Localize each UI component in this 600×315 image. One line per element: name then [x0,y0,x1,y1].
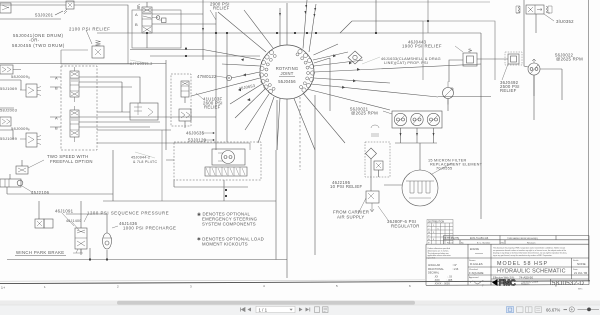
svg-text:LINE)(CAT) PROP. PSI: LINE)(CAT) PROP. PSI [384,61,428,65]
svg-text:ECN-74-A50-116: ECN-74-A50-116 [470,237,489,240]
nav next icon [299,308,303,312]
layout icon 3 [526,307,533,313]
valve left edge a [0,3,11,13]
svg-text:B-TH-95(275): B-TH-95(275) [445,237,460,240]
revision row entries [445,237,539,240]
svg-text:21 JUL '86: 21 JUL '86 [574,271,588,275]
solenoid valve 31U0352 [516,5,552,14]
junction [226,32,228,34]
tolerance block small print [428,247,451,260]
zoom slider line [578,308,600,310]
pilot valve 58J0009 a [0,65,21,74]
steering wires [166,160,248,201]
svg-text:: 1/16: : 1/16 [452,268,459,271]
orifice check [152,16,166,23]
svg-text:F-SQUARE: F-SQUARE [469,271,484,275]
svg-text:3lU0352: 3lU0352 [556,19,574,24]
svg-text:: ±1°: : ±1° [452,264,457,267]
svg-text:1900 PSI RELIEF: 1900 PSI RELIEF [402,44,442,49]
wire right bus [480,33,482,219]
pilot valve 55J1069 a [20,84,41,97]
svg-text:FMC: FMC [499,279,516,288]
leader 41U103F [196,93,203,99]
leader 53J0129 [203,139,213,141]
winch spool valve 2 [70,106,79,142]
svg-text:74-A50-90: 74-A50-90 [519,276,533,280]
reservoir tank [402,170,438,206]
small valve pair [35,219,53,228]
pilot valve 55J1069 b [20,133,41,147]
wire elbow to box [340,21,423,33]
page copy icon [315,307,320,313]
wire [371,159,379,191]
svg-text:1000 PSI PRECHARGE: 1000 PSI PRECHARGE [123,226,176,231]
svg-text:Approved: Approved [469,276,479,279]
distribution cells [428,225,439,245]
FMC logo arrow [492,279,498,286]
page copy icon 2 [323,307,329,313]
svg-text:RELIEF: RELIEF [204,105,221,110]
junction [89,259,91,261]
svg-text:6: 6 [409,284,411,288]
junction [306,32,308,34]
arrowhead [305,5,307,8]
label 46J2195 [330,180,363,189]
pilot wires left column [0,80,21,139]
svg-text:ing or any part thereof, excep: ing or any part thereof, except for manu… [493,254,553,257]
junction [315,32,317,34]
wire bus upper [97,32,455,34]
toolbar top edge [0,304,600,306]
triple pump box [392,111,442,128]
page field dropdown [290,309,293,311]
wire vertical A [202,0,204,60]
wire motor bus [438,69,562,120]
scrollbar track [0,301,600,306]
svg-text:2100 PSI RELIEF: 2100 PSI RELIEF [69,27,110,32]
leader dot [213,139,215,141]
svg-text:70J0555: 70J0555 [436,166,452,170]
gauge 47M0122 [216,75,232,80]
svg-text:3: 3 [190,284,192,288]
leader regulator [378,206,388,220]
wire [455,32,481,34]
spoke wires lower [277,98,315,171]
wire [524,0,528,67]
wire [97,142,210,144]
spoke wires left [191,50,274,144]
svg-text:7: 7 [482,284,484,288]
svg-text:4: 4 [263,284,265,288]
junction [215,32,217,34]
wire dashed below joint [299,97,301,170]
zoom reset circle [569,307,574,312]
center-left box [130,103,158,120]
wire [0,5,128,33]
svg-text:55J1069: 55J1069 [0,86,18,91]
leader dot [213,132,215,134]
svg-text:B: B [135,22,138,27]
box 45J09 [210,143,250,150]
sheet bottom border inner light line [0,280,425,281]
svg-text:HYDRAULIC SCHEMATIC: HYDRAULIC SCHEMATIC [497,268,566,274]
svg-text:1: 1 [44,285,46,289]
svg-text:5: 5 [336,284,338,288]
two speed box [16,166,28,174]
svg-text:58J2003: 58J2003 [0,108,18,113]
svg-text:J: J [428,228,429,230]
label 45J0944 optional [131,156,157,165]
engre dash [475,253,483,255]
wire [165,60,167,150]
steering pump circle [212,149,245,165]
motor circle [443,82,454,105]
nav prev icon [248,308,252,312]
pilot valve 58J2003 [0,117,11,126]
svg-text:46J1400: 46J1400 [66,219,82,223]
layout icon 2 [517,307,524,313]
leader 31U0352 [544,14,554,21]
rotating joint ports right [296,49,315,92]
steering valve bank [205,167,247,176]
svg-text:1 / 1: 1 / 1 [259,307,268,312]
arrowhead [304,11,306,14]
svg-text:Revision: Revision [527,242,536,244]
sheet bottom border [0,281,590,284]
svg-text:(75): (75) [500,242,504,244]
svg-text:FREEFALL OPTION: FREEFALL OPTION [50,159,93,164]
enclosure box hoist relief [61,33,130,64]
center dashed enclosure [171,74,191,126]
note optional steering [197,212,258,227]
svg-text:MOMENT KICKOUTS: MOMENT KICKOUTS [202,242,248,247]
svg-text:53J0129: 53J0129 [188,138,207,143]
toolbar background [0,305,600,315]
spoke wires right [303,44,481,143]
svg-text:55J1069: 55J1069 [0,136,18,141]
wire long bottom [103,200,276,202]
leader replacement element [432,163,452,174]
sequence valve 46J1400 [73,224,87,255]
accumulator [103,233,113,249]
junction [146,32,148,34]
svg-text:DISTRIBUTION: DISTRIBUTION [428,221,445,223]
svg-text:58J0532-D: 58J0532-D [552,280,584,287]
pump P3 [427,113,439,125]
arrowhead [342,86,345,89]
arrowhead [314,8,316,11]
wire center vertical long [314,95,316,255]
wire [427,0,429,33]
svg-text:55J0456: 55J0456 [278,79,296,84]
distribution table [427,220,453,245]
wire [90,150,287,278]
arrowhead [313,14,315,17]
winch valve wires [50,77,216,127]
svg-text:-OR-: -OR- [29,38,40,43]
zoom slider knob [587,308,591,312]
revision header row [447,241,536,244]
junction [276,32,278,34]
steering assembly dashed enclosure [174,142,261,180]
pump P2 [411,113,423,125]
svg-text:@2625 RPM: @2625 RPM [556,57,583,62]
svg-text:Division: Division [521,283,530,286]
svg-text:58J0009ₑ: 58J0009ₑ [11,126,30,131]
arrowhead [333,54,336,57]
wire port lines [152,14,216,24]
svg-text:.XXXX : .0005: .XXXX : .0005 [434,283,450,286]
zoom minus [564,309,568,311]
svg-text:1200 PSI SEQUENCE PRESSURE: 1200 PSI SEQUENCE PRESSURE [87,211,169,216]
junction [185,55,187,57]
wire [146,2,148,48]
wire [0,11,63,19]
pump suction wires [395,128,437,170]
arrowhead [433,133,435,136]
air regulator 36J80F [366,191,379,212]
enclosure box main valve [132,10,181,48]
arrowhead [238,88,241,91]
faint optional lines [130,57,380,158]
svg-text:MODEL 58 HSP: MODEL 58 HSP [497,261,548,267]
layout icon 4 [535,307,542,313]
svg-text:RELIEF: RELIEF [213,6,230,11]
rotating joint underline [279,76,295,78]
wire [150,56,330,111]
junction [185,48,187,50]
arrowhead [241,58,244,61]
logo division text [521,280,539,286]
brake cylinder [0,179,23,187]
svg-text:47M0122: 47M0122 [197,74,217,79]
arrowhead [243,73,246,76]
leader 46J1400 [72,222,79,230]
wire [477,58,508,60]
rotating joint ports left [259,50,276,93]
wire [375,0,377,33]
filter assembly [365,125,390,177]
svg-text:46J1091: 46J1091 [55,209,74,214]
layout icon selected [507,307,514,313]
svg-text:2: 2 [117,285,119,289]
junction [427,20,429,22]
svg-text:JOINT: JOINT [280,71,293,76]
title block frame [426,236,589,286]
wire [97,111,130,113]
leader 46J1091 [62,213,74,226]
junction [106,259,108,261]
svg-text:A: A [135,12,138,17]
svg-text:A: A [55,76,58,81]
winch valve enclosure [61,66,97,150]
nav last-page icon [306,308,310,312]
junction [375,32,377,34]
leader from carrier [358,198,366,214]
relief valve 36J0492 [502,52,522,80]
svg-text:NONE: NONE [577,262,586,266]
pump 56J0022 [528,59,540,75]
zone numbers bottom [44,283,557,288]
svg-text:58J0009ₐ: 58J0009ₐ [11,74,30,79]
relief valve 41U103F [181,81,189,103]
wire [276,100,278,150]
relief valve lower 46J0635 [179,109,191,128]
arrowhead [279,13,281,16]
winch park brake underline [15,255,66,257]
leader 56J0021 [383,111,392,114]
sheet right border [588,0,590,282]
arrowhead [202,28,204,31]
wire long left bus [0,63,166,65]
svg-text:53J0201: 53J0201 [35,13,54,18]
legal small print [493,247,567,257]
arrowhead [353,79,356,82]
wire vertical B [216,12,227,150]
relief valve 46J0443 [455,46,477,66]
svg-text:DECIMAL: DECIMAL [428,272,440,275]
wire [112,150,114,201]
wire [97,129,171,131]
main control valve spool (top center) [137,4,152,33]
wire [449,60,463,82]
sheet top border [0,1,490,3]
svg-text:specified.: specified. [428,258,436,260]
svg-text:ENG'RE: ENG'RE [470,248,479,251]
wire [535,14,537,33]
junction [225,189,227,191]
leader precharge [112,226,118,228]
spoke wires upper [218,0,316,52]
tolerance values [428,264,459,286]
svg-text:@2625 RPM: @2625 RPM [351,111,378,116]
scrollbar thumb [117,301,415,305]
wire drain bottom [7,259,287,261]
leader 45J2106 [22,186,32,192]
svg-text:& 7L8 PL4TC: & 7L8 PL4TC [133,160,157,164]
svg-text:A: A [55,116,58,121]
svg-text:RELIEF: RELIEF [500,88,517,93]
arrowhead [416,133,418,136]
valve 53J0201 [64,1,74,14]
wire [534,69,562,96]
arrowhead [349,61,352,64]
svg-text:10 PSI RELIEF: 10 PSI RELIEF [330,184,363,189]
junction [225,195,227,197]
svg-text:WINCH PARK BRAKE: WINCH PARK BRAKE [16,250,65,255]
svg-text:45J2106: 45J2106 [31,190,50,195]
wire [66,214,107,233]
svg-text:66.67%: 66.67% [546,307,560,312]
enclosure top right [423,21,495,80]
page field [256,306,295,312]
svg-text:R.GILLES: R.GILLES [470,262,483,266]
pump P1 [394,113,406,125]
leader 46J0635 [202,132,213,134]
svg-text:REGULATOR: REGULATOR [391,224,420,229]
wire [130,49,203,51]
approved signature [470,281,484,284]
svg-text:E. C. Number: E. C. Number [477,241,491,244]
svg-text:SYSTEM COMPONENTS: SYSTEM COMPONENTS [202,222,256,227]
svg-text:B: B [55,86,58,91]
leader 2900 psi relief [210,10,216,20]
svg-text:B: B [55,126,58,131]
relief valve 2100 PSI [86,30,104,58]
svg-text:TWR MADE FROM 58J0444(D): TWR MADE FROM 58J0444(D) [507,237,538,240]
check valve diamond [348,51,362,64]
nav first-page icon [241,308,246,312]
svg-text:ANGULAR: ANGULAR [428,264,440,267]
wire [7,160,113,194]
winch spool valve 1 [70,67,79,102]
svg-text:AIR SUPPLY: AIR SUPPLY [337,215,365,220]
arrowhead [247,98,250,101]
arrowhead [357,68,360,71]
wire [39,201,81,224]
leader two speed [28,160,44,168]
svg-text:6J7U0315-2: 6J7U0315-2 [130,62,153,66]
svg-text:45J0944-2: 45J0944-2 [131,156,150,160]
svg-text:58J0455 (TWO DRUM): 58J0455 (TWO DRUM) [12,43,65,48]
svg-text:46J0635: 46J0635 [186,131,205,136]
rotating joint circle [260,45,314,99]
junction [294,32,296,34]
wire tank left [384,184,402,186]
svg-text:1+: 1+ [1,286,5,290]
svg-text:Rev’d: Rev’d [447,242,453,244]
leader sequence pressure [84,214,88,222]
wire [161,130,163,201]
arrowhead [400,133,402,136]
